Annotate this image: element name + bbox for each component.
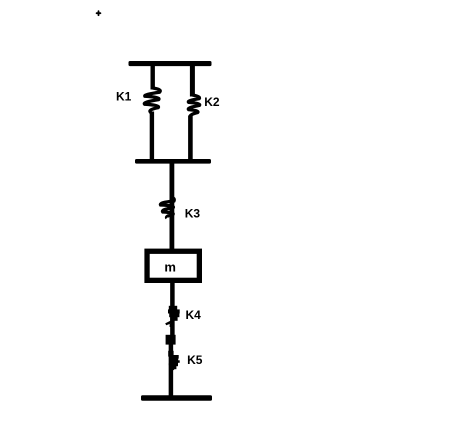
svg-text:K1: K1 [116,90,132,104]
svg-text:K3: K3 [185,207,201,221]
svg-text:K4: K4 [186,308,202,322]
svg-text:K2: K2 [204,95,220,109]
svg-text:m: m [164,259,176,274]
svg-text:K5: K5 [187,353,203,367]
